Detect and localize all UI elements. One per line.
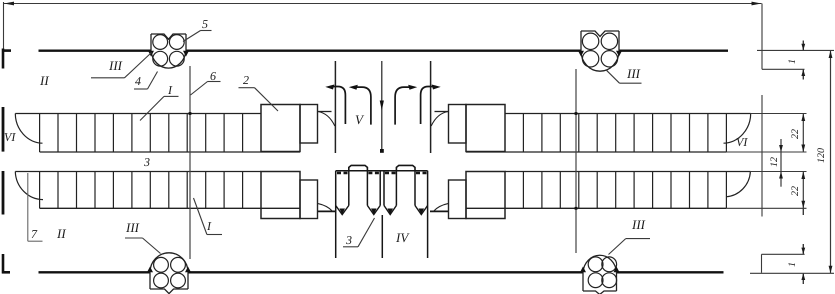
svg-text:3: 3: [143, 155, 150, 169]
recuperator funnel 1: [336, 206, 349, 215]
bottom-left beam ribs: [40, 172, 243, 209]
svg-text:IV: IV: [395, 230, 410, 245]
right step bottom horizontal: [762, 253, 805, 255]
bottom-left beam top edge: [15, 171, 261, 173]
flue right wall: [430, 61, 432, 153]
bottom-right big block: [466, 172, 505, 219]
bottom-left small block: [300, 180, 318, 219]
top-right burner mount arrows: [578, 51, 584, 57]
svg-text:22: 22: [790, 186, 801, 196]
left wall break mark top bar: [2, 107, 5, 152]
svg-text:3: 3: [345, 233, 352, 247]
leader label III bottom-left: [125, 237, 143, 239]
bottom-right hearth connection line: [430, 210, 448, 212]
bottom hearth thick line: [39, 271, 724, 273]
top dim left arrow: [4, 2, 14, 6]
bottom-right burner unit box: [583, 255, 617, 294]
dim 1 bottom: [802, 244, 804, 254]
extension line top 120: [757, 49, 834, 51]
leader label III top-right: [620, 82, 642, 84]
dim 120 line: [830, 50, 832, 273]
leader label 2: [239, 87, 255, 89]
top-left beam bottom edge: [40, 151, 300, 153]
svg-text:VI: VI: [736, 135, 748, 149]
top-left burner unit box: [151, 34, 186, 68]
top dim right arrow: [752, 2, 762, 6]
leader label I top: [164, 95, 179, 97]
top-right beam bottom edge: [466, 151, 726, 153]
bottom-left burner unit box: [150, 253, 188, 294]
recuperator mouth hatch 1: [337, 172, 348, 174]
recuperator mouth hatch 3: [385, 172, 396, 174]
svg-text:5: 5: [202, 17, 208, 31]
top-left burner mount arrows: [148, 51, 154, 57]
leader label I bottom: [207, 234, 222, 236]
svg-text:12: 12: [769, 157, 780, 167]
right gas flow arrow inner: [421, 87, 436, 125]
bottom-left corner break mark: [2, 254, 10, 274]
recuperator top line: [336, 170, 428, 172]
dim 12: [780, 139, 782, 187]
bottom-left beam end scoop: [15, 172, 43, 200]
bottom-left big block: [261, 172, 300, 219]
left gas flow arrow inner: [330, 87, 345, 125]
dim 1 top: [802, 41, 804, 51]
bottom-right beam top edge: [505, 171, 750, 173]
bottom-right beam bottom edge: [466, 207, 726, 209]
bottom-left burner tubes: [154, 257, 186, 288]
recuperator channel walls: [336, 171, 428, 258]
right extension line of top dim: [761, 4, 763, 70]
bottom-left burner mount arrows: [147, 267, 153, 273]
svg-text:7: 7: [31, 227, 38, 241]
leader label 5: [201, 30, 212, 32]
svg-text:6: 6: [210, 69, 216, 83]
bottom-right burner tubes: [588, 257, 616, 288]
recuperator mouth hatch 2: [368, 172, 379, 174]
svg-text:III: III: [108, 58, 123, 73]
section line right: [575, 69, 577, 253]
bottom-right beam end scoop: [726, 172, 750, 197]
top-left small block: [300, 105, 318, 144]
recuperator funnel 2: [367, 206, 380, 215]
right gas flow arrow outer: [395, 87, 411, 125]
leader label 4: [134, 88, 148, 90]
leader label III top-left: [91, 77, 125, 79]
dim 22 bottom: [802, 172, 804, 209]
svg-text:2: 2: [243, 73, 249, 87]
svg-text:II: II: [56, 226, 66, 241]
bottom-right beam ribs: [523, 172, 726, 209]
top-left corner break mark: [2, 49, 11, 69]
top-left beam top edge: [15, 113, 261, 115]
top-right flue connection line: [435, 111, 449, 113]
recuperator funnel 3: [384, 206, 396, 215]
top dimension line: [4, 3, 762, 5]
recuperator funnel 4: [415, 206, 428, 215]
leader label 6: [208, 81, 221, 83]
section line 6 left: [189, 66, 191, 259]
bottom-right small block: [449, 180, 467, 219]
svg-text:1: 1: [787, 59, 798, 64]
svg-text:VI: VI: [4, 130, 16, 144]
svg-text:22: 22: [790, 129, 801, 139]
top-left flue scroll arc: [318, 112, 335, 127]
recuperator cap 1: [349, 165, 368, 170]
top-right beam ribs: [523, 114, 726, 153]
bottom-left hearth connection line: [318, 210, 336, 212]
leader label 7: [27, 173, 29, 241]
flue center line: [381, 61, 383, 152]
right step bottom vertical: [761, 254, 763, 272]
svg-text:III: III: [626, 66, 641, 81]
top-left beam end scoop: [15, 114, 42, 144]
top-right flue scroll arc: [431, 112, 448, 127]
top-right big block: [466, 105, 505, 152]
top-left big block: [261, 105, 300, 152]
bottom-right burner mount arrows: [580, 267, 586, 273]
bottom-left hearth scroll arc: [318, 204, 333, 212]
right step top horizontal: [762, 68, 805, 70]
leader label 3 bottom: [343, 246, 358, 248]
flue left wall: [334, 61, 336, 153]
left extension line: [3, 2, 5, 50]
svg-text:III: III: [631, 217, 646, 232]
top-left flue connection line: [318, 111, 332, 113]
svg-text:II: II: [39, 73, 49, 88]
top-right beam end scoop: [724, 114, 751, 144]
left wall break mark bottom bar: [2, 171, 5, 215]
top-left burner tubes: [153, 35, 184, 67]
top roof thick line: [39, 50, 729, 52]
svg-text:III: III: [125, 220, 140, 235]
left gas flow arrow outer: [355, 87, 371, 125]
dim 22 top: [802, 114, 804, 153]
flue center end dot: [380, 149, 384, 153]
top-right small block: [449, 105, 467, 144]
top-right burner tubes: [582, 33, 617, 67]
leader label III bottom-right: [626, 238, 650, 240]
bottom-left beam bottom edge: [40, 207, 300, 209]
rotated dimension texts: [769, 59, 827, 267]
top-right beam top edge: [505, 113, 751, 115]
top-left beam ribs: [40, 114, 243, 153]
svg-text:1: 1: [787, 262, 798, 267]
extension lines right of beams: [751, 113, 807, 115]
flue center down arrow: [380, 101, 384, 111]
recuperator mouth hatch 4: [416, 172, 427, 174]
bottom-right hearth scroll arc: [434, 204, 449, 212]
extension line bottom 120: [750, 272, 834, 274]
recuperator cap 2: [396, 165, 415, 170]
svg-text:120: 120: [816, 148, 827, 163]
top-right burner unit box: [581, 31, 619, 71]
svg-text:4: 4: [135, 74, 141, 88]
right boundary line: [761, 95, 763, 217]
